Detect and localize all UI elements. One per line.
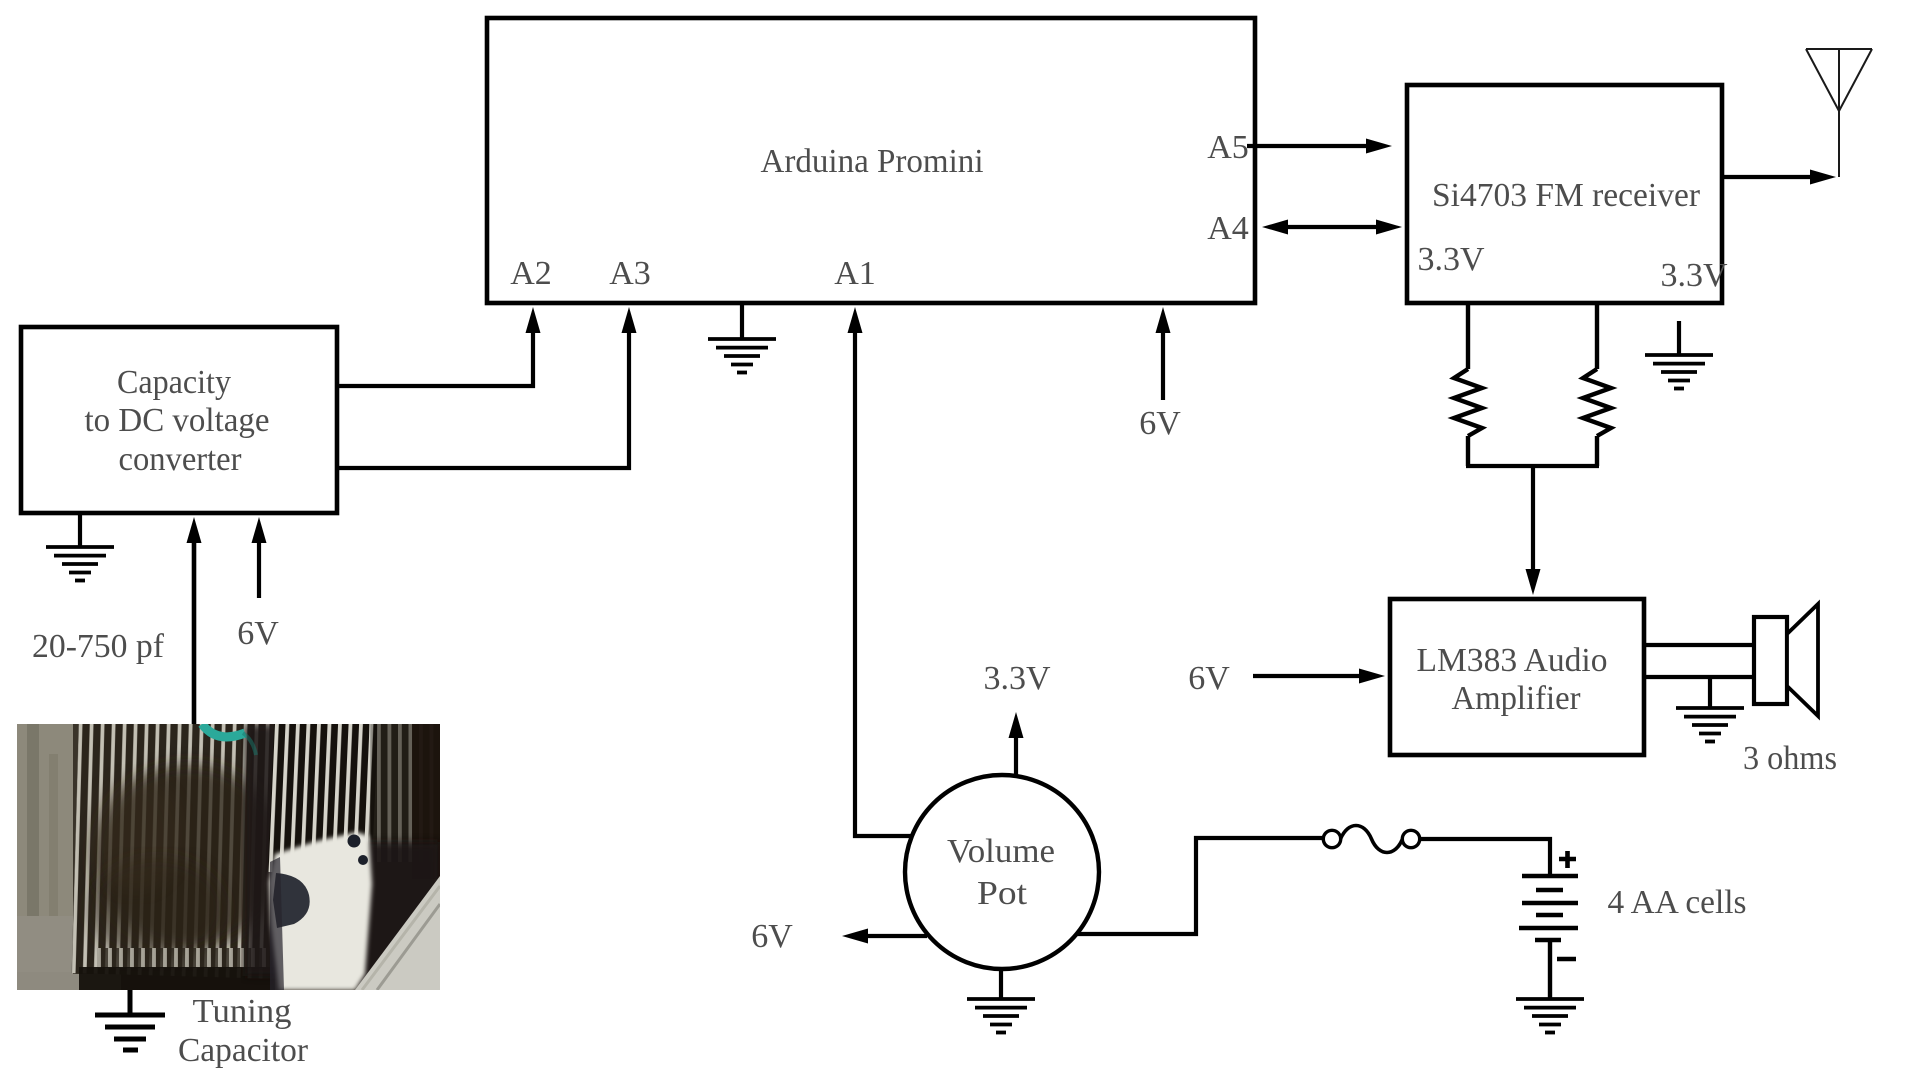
wire tuning capacitor to converter with arrow — [187, 517, 202, 724]
svg-text:A4: A4 — [1207, 210, 1249, 247]
svg-text:Arduina Promini: Arduina Promini — [761, 143, 984, 180]
svg-text:to DC voltage: to DC voltage — [85, 402, 270, 439]
battery plus sign — [1559, 851, 1576, 868]
block LM383 Audio Amplifier U3 — [1390, 599, 1644, 755]
volume pot circle — [905, 775, 1099, 969]
wire 6V into converter with arrow — [252, 517, 267, 598]
wire fuse to battery — [1420, 839, 1550, 874]
resistor R2 right pullup — [1583, 303, 1611, 466]
wire resistors to LM383 with arrow — [1526, 466, 1541, 595]
svg-text:Volume: Volume — [947, 833, 1055, 870]
svg-text:3.3V: 3.3V — [1660, 257, 1728, 294]
block Arduino Pro Mini U1 — [487, 18, 1255, 303]
wire 6V into Arduino with arrow — [1156, 307, 1171, 400]
battery minus sign — [1557, 957, 1576, 962]
svg-text:3.3V: 3.3V — [1417, 241, 1485, 278]
label Tuning Capacitor — [178, 993, 309, 1069]
wire Si4703 to antenna with arrow — [1722, 170, 1836, 185]
svg-text:converter: converter — [119, 441, 243, 478]
battery 4 AA cells — [1519, 876, 1578, 999]
speaker LS1 — [1754, 604, 1818, 716]
wire 6V into LM383 with arrow — [1253, 669, 1385, 684]
wire LM383 to speaker bottom — [1644, 675, 1754, 679]
svg-text:A5: A5 — [1207, 129, 1249, 166]
wire 6V from pot with arrow — [842, 929, 927, 944]
svg-text:A3: A3 — [609, 255, 651, 292]
wire converter to A2 with arrow — [337, 307, 541, 386]
svg-text:A1: A1 — [834, 255, 876, 292]
svg-text:6V: 6V — [1139, 405, 1181, 442]
svg-text:Amplifier: Amplifier — [1452, 680, 1582, 717]
svg-text:20-750 pf: 20-750 pf — [32, 628, 165, 665]
ground under battery — [1516, 999, 1584, 1033]
svg-text:Tuning: Tuning — [193, 993, 292, 1030]
ground under pot — [967, 968, 1035, 1033]
wire 3.3V from pot with arrow — [1009, 712, 1024, 776]
wire A1 to volume pot with arrow — [848, 307, 913, 836]
svg-text:LM383 Audio: LM383 Audio — [1417, 642, 1608, 679]
wire A5 to Si4703 with arrow — [1247, 139, 1392, 154]
svg-text:6V: 6V — [1188, 660, 1230, 697]
ground under converter — [46, 513, 114, 581]
svg-text:4 AA cells: 4 AA cells — [1608, 884, 1747, 921]
wire LM383 to speaker top — [1644, 643, 1754, 647]
svg-text:3 ohms: 3 ohms — [1743, 740, 1837, 777]
block Si4703 FM receiver U2 — [1407, 85, 1722, 303]
photo of tuning capacitor — [17, 709, 440, 990]
ground under tuning capacitor photo — [95, 990, 165, 1050]
svg-text:Si4703 FM receiver: Si4703 FM receiver — [1432, 177, 1701, 214]
wire converter to A3 with arrow — [337, 307, 637, 468]
ground under Arduino — [708, 303, 776, 373]
wire A4 to Si4703 double arrow — [1262, 220, 1402, 235]
resistor R1 left pullup — [1454, 303, 1482, 466]
svg-text:Pot: Pot — [977, 875, 1028, 912]
svg-text:Capacitor: Capacitor — [178, 1032, 309, 1069]
ground on speaker wire — [1676, 677, 1744, 742]
wire joining resistors — [1466, 464, 1599, 468]
fuse F1 — [1323, 826, 1419, 853]
svg-text:3.3V: 3.3V — [983, 660, 1051, 697]
wire pot to fuse — [1076, 838, 1323, 934]
ground right of Si4703 — [1645, 321, 1713, 389]
svg-text:Capacity: Capacity — [117, 364, 231, 401]
svg-text:6V: 6V — [237, 615, 279, 652]
block Capacity to DC voltage converter — [21, 327, 337, 513]
svg-text:6V: 6V — [751, 918, 793, 955]
svg-text:A2: A2 — [510, 255, 552, 292]
antenna symbol — [1806, 49, 1872, 177]
